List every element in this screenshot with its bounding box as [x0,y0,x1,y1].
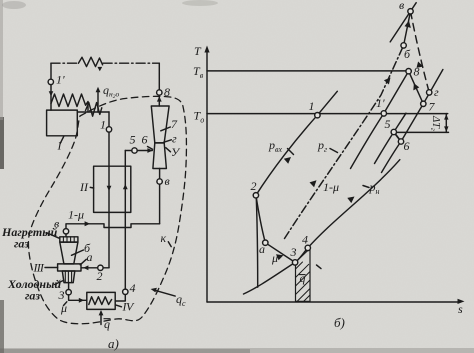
svg-text:б: б [404,47,411,61]
isobar p_vx through 2 and 1 [256,91,337,195]
svg-text:а): а) [108,336,119,351]
svg-text:1: 1 [100,118,106,132]
turbine-expander upper cone 7 [151,106,169,143]
s axis [207,301,460,303]
wire: node v to ejector inlet [65,234,67,237]
svg-text:1': 1' [56,73,65,87]
leader to label 6 [148,147,153,150]
svg-text:4: 4 [130,281,136,295]
leader to label IV [115,305,121,307]
coil inside box IV [89,297,112,305]
wire: node 3 elbow into box IV [69,295,87,300]
svg-text:6: 6 [142,133,148,147]
q_H2O arrow [97,92,99,112]
leader p_vx label [288,149,294,155]
arrow on 1-mu lower [310,180,317,187]
svg-text:5: 5 [130,133,136,147]
svg-text:7: 7 [429,100,436,114]
ejector mixing chamber a [58,264,81,271]
T axis [206,50,208,302]
node 7 [421,101,426,106]
svg-text:3: 3 [58,288,65,302]
node 3 [66,290,71,295]
T_v isotherm line [207,70,409,72]
leader mu [64,302,67,306]
svg-text:1: 1 [309,99,315,113]
svg-text:1-μ: 1-μ [323,180,339,194]
leader to label 7 [161,127,171,131]
svg-text:г: г [172,132,177,146]
node 5 [391,129,396,134]
load heat exchanger IV box [87,292,115,309]
vertical drop from 2 [256,195,258,287]
isobar p_n through 3 and 4 [244,160,400,294]
leader III to chamber [45,267,58,269]
wire: pipe below turbine to node v [159,169,161,224]
leader to label b [72,250,84,255]
node 4 [123,289,128,294]
isobar through 6 up to 7 [382,104,424,173]
node 8 [406,69,411,74]
svg-text:Нагретый: Нагретый [1,225,58,239]
svg-text:q: q [300,271,306,285]
node 1 [106,127,111,132]
arrow left into chamber a [83,265,88,270]
arrow on 1-mu upper [384,78,391,85]
svg-text:а: а [87,250,93,264]
leader: heated gas [47,233,60,239]
arrow down inside box II left line [107,186,112,191]
svg-text:μ: μ [271,251,278,265]
svg-text:к: к [161,231,167,245]
leader to label U [166,148,171,152]
svg-text:а: а [259,242,265,256]
arrow right into box IV [79,298,84,303]
wire: pipe above turbine to node 8 [158,63,160,106]
node v right [157,179,162,184]
svg-text:в: в [399,0,404,12]
svg-text:5: 5 [385,117,391,131]
arrow below top coil [97,67,102,71]
ejector III inlet header [60,237,78,242]
arrow on v-g dashes [416,62,423,68]
dash-dot line 1-mu [285,45,404,238]
dashed line v to g [411,11,430,92]
heat consumer I box [47,110,78,136]
segment b to v [404,11,411,45]
svg-text:1-μ: 1-μ [68,208,84,222]
svg-text:III: III [33,261,45,275]
arrow right into turbine [147,148,152,153]
svg-text:s: s [458,302,463,316]
isobar through 7 and g [423,70,443,104]
node 8 [157,90,162,95]
svg-text:2: 2 [251,179,257,193]
dashed system boundary k [28,96,186,323]
wire: left vertical pipe [50,63,52,110]
leader to label II [90,186,93,189]
leader to label I [60,136,64,143]
q-bar arrow into box IV [100,312,102,325]
heat exchanger coil in top pipe [78,57,102,66]
isobar p_g through 1' and 8 [351,71,409,168]
leader p_n label [363,186,369,188]
leader to label k [168,242,171,247]
segment 8 to 7 [409,71,424,104]
svg-text:газ: газ [25,289,40,303]
svg-text:8: 8 [164,85,170,99]
wire: top dash-dot pipe right part [103,62,159,64]
delta-T dimension line [445,114,447,133]
turbine lower cone [153,143,167,169]
node 4 [305,245,310,250]
segment 2 to a [256,195,265,242]
regenerative heat exchanger II box [94,166,131,212]
leader: cold gas [55,280,64,284]
node 2 [98,265,103,270]
ejector diffuser [62,271,75,283]
node 1' [48,79,53,84]
node v top [408,9,413,14]
node v left [63,229,68,234]
segment a to 3 with arrow [265,243,295,263]
arrow on b-v [405,21,411,28]
svg-text:2: 2 [97,269,103,283]
svg-text:μ: μ [60,301,67,315]
wire: right inner pipe from node 5 through box II to node 4 [115,151,125,302]
node 1 [315,113,320,118]
node a [263,240,268,245]
T_o isotherm line [207,113,448,115]
svg-text:г: г [434,85,439,99]
node 5 [132,148,137,153]
wire: elbow to mixing chamber with node 2 [81,267,109,269]
svg-text:II: II [79,180,89,194]
ejector nozzle b [60,242,78,264]
wire: vertical pipe through node 1 into box II [108,112,110,268]
wire: diffuser to node 3 [68,283,70,290]
arrow on p_n [347,197,354,204]
water cooler coil [86,103,102,117]
node 6 [398,139,403,144]
svg-text:1': 1' [376,96,385,110]
wire: node 5 line into turbine inlet [125,150,152,152]
svg-text:7: 7 [171,117,178,131]
tangent line through v [390,3,416,42]
q_c arrow [155,290,176,296]
isobar through 5 [375,113,407,163]
regenerator coil above box I [51,94,88,112]
svg-text:6: 6 [404,139,410,153]
arrow right on 1-mu pipe [85,221,91,226]
wire: 1-mu return pipe with jog [66,224,160,229]
svg-text:в: в [165,174,170,188]
line at level of point 5 [394,131,449,133]
link 5-6 [394,132,401,142]
wire: top dash-dot pipe left part [51,62,78,64]
wire from box I to node 1 pipe [77,111,109,113]
node 1' [381,111,386,116]
svg-text:4: 4 [302,233,308,247]
svg-text:3: 3 [290,245,297,259]
svg-text:б): б) [334,315,345,330]
arrow on p_vx [284,157,291,164]
arrow on 8-7 toward 8 [413,83,419,90]
leader p_g label [330,149,338,153]
svg-text:8: 8 [414,65,420,79]
node g [427,90,432,95]
svg-text:газ: газ [14,237,29,251]
arrow up to node 8 [157,96,162,101]
arrow down on left pipe [49,91,54,96]
arrow up inside box II right line [123,184,128,189]
stray tick near hatch [317,265,322,269]
leader to label a [80,259,86,265]
node 3 [292,260,297,265]
node 2 [253,193,258,198]
hatched area q-bar [296,248,311,301]
leader to label g [164,140,172,143]
node b [401,43,406,48]
